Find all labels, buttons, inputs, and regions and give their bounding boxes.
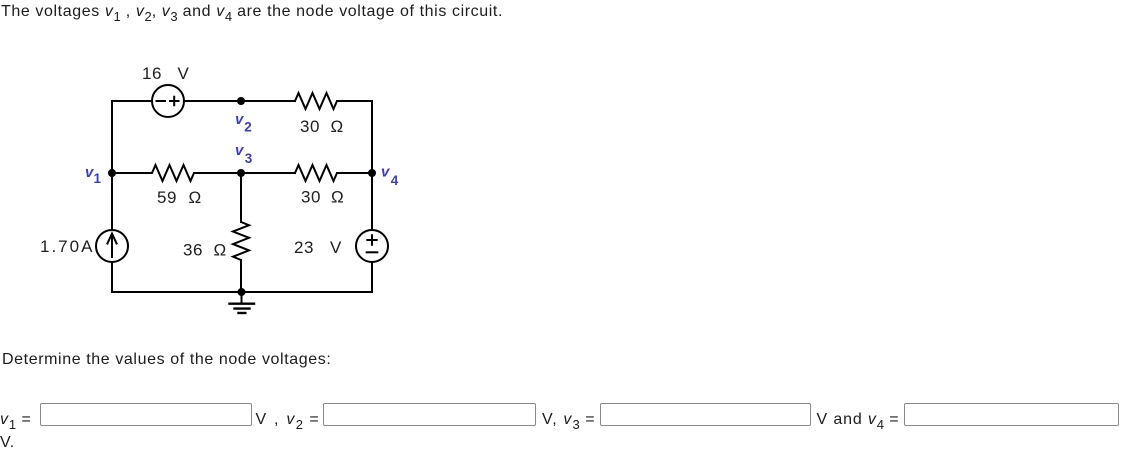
answer row label v1 = — [0, 411, 32, 432]
svg-text:16: 16 — [142, 64, 162, 83]
input field 2 — [323, 403, 536, 427]
wire middle-right (R3 to node v4) — [337, 172, 372, 174]
svg-text:3: 3 — [245, 151, 253, 166]
voltage source V2 23V (circle with + over -) — [356, 230, 388, 262]
svg-text:1.70A: 1.70A — [40, 237, 94, 256]
node label v4 — [381, 164, 399, 189]
svg-text:4: 4 — [391, 173, 399, 188]
svg-text:30: 30 — [301, 188, 321, 207]
value label 23 V — [294, 238, 342, 257]
node label v3 — [235, 142, 253, 166]
wire from node v3 down to R4 — [240, 173, 242, 222]
trailing V. — [0, 434, 15, 452]
svg-text:1: 1 — [94, 171, 102, 186]
current source I1 1.70A (circle with up arrow) — [96, 230, 128, 262]
svg-text:v: v — [381, 164, 391, 181]
svg-text:v: v — [235, 142, 245, 159]
value label 59 ohm — [157, 188, 202, 207]
svg-text:23: 23 — [294, 238, 314, 257]
prompt line — [2, 351, 331, 369]
ground junction dot — [238, 288, 246, 296]
resistor R1 30 ohm (top) — [295, 93, 337, 109]
svg-text:Ω: Ω — [214, 241, 227, 260]
wire top-left horizontal (node v1 top rail to 16V source) — [112, 100, 152, 102]
wire left rail lower (current source to bottom rail) — [111, 262, 113, 292]
wire bottom rail — [112, 291, 372, 293]
svg-text:36: 36 — [183, 241, 203, 260]
answer row label V and v4 = — [817, 411, 900, 432]
svg-text:V: V — [330, 238, 342, 257]
input field 3 — [600, 403, 811, 427]
svg-text:2: 2 — [244, 120, 252, 135]
input field 1 — [40, 403, 252, 427]
svg-text:Ω: Ω — [189, 188, 202, 207]
answer row label V , v2 = — [256, 411, 321, 432]
svg-text:59: 59 — [157, 188, 177, 207]
node label v1 — [85, 164, 102, 186]
wire right rail upper (top corner down to 23V source) — [371, 101, 373, 230]
node v1 junction dot — [108, 169, 116, 177]
wire left rail upper (top rail down to current source) — [111, 101, 113, 230]
node v4 junction dot — [368, 169, 376, 177]
node label v2 — [235, 111, 252, 135]
wire below R4 to bottom rail — [240, 260, 242, 292]
svg-text:Ω: Ω — [331, 117, 344, 136]
ground symbol — [230, 292, 255, 313]
value label 1.70A — [40, 237, 94, 256]
wire top middle (16V source to node v2 and on to R1) — [184, 100, 295, 102]
circuit schematic — [0, 0, 440, 340]
wire middle-left (v1 to R2) — [112, 172, 152, 174]
voltage source V1 16V (circle with - +) — [152, 85, 184, 117]
resistor R4 36 ohm (vertical) — [233, 222, 249, 260]
svg-text:Ω: Ω — [331, 188, 344, 207]
svg-text:30: 30 — [300, 117, 320, 136]
resistor R2 59 ohm — [152, 165, 194, 181]
value label 30 ohm (top) — [300, 117, 344, 136]
value label 36 ohm — [183, 241, 227, 260]
resistor R3 30 ohm (middle) — [295, 165, 337, 181]
title line — [1, 3, 503, 24]
answer row label V, v3 = — [542, 411, 596, 432]
wire middle (R2 to node v3 to R3) — [194, 172, 295, 174]
wire top-right horizontal (R1 to right rail) — [337, 100, 372, 102]
node v2 junction dot — [237, 97, 245, 105]
svg-text:V: V — [178, 64, 190, 83]
value label 30 ohm (middle) — [301, 188, 344, 207]
value label 16 V — [142, 64, 190, 83]
node v3 junction dot — [237, 169, 245, 177]
input field 4 — [904, 403, 1120, 427]
wire right rail lower (23V source to bottom rail) — [371, 262, 373, 292]
